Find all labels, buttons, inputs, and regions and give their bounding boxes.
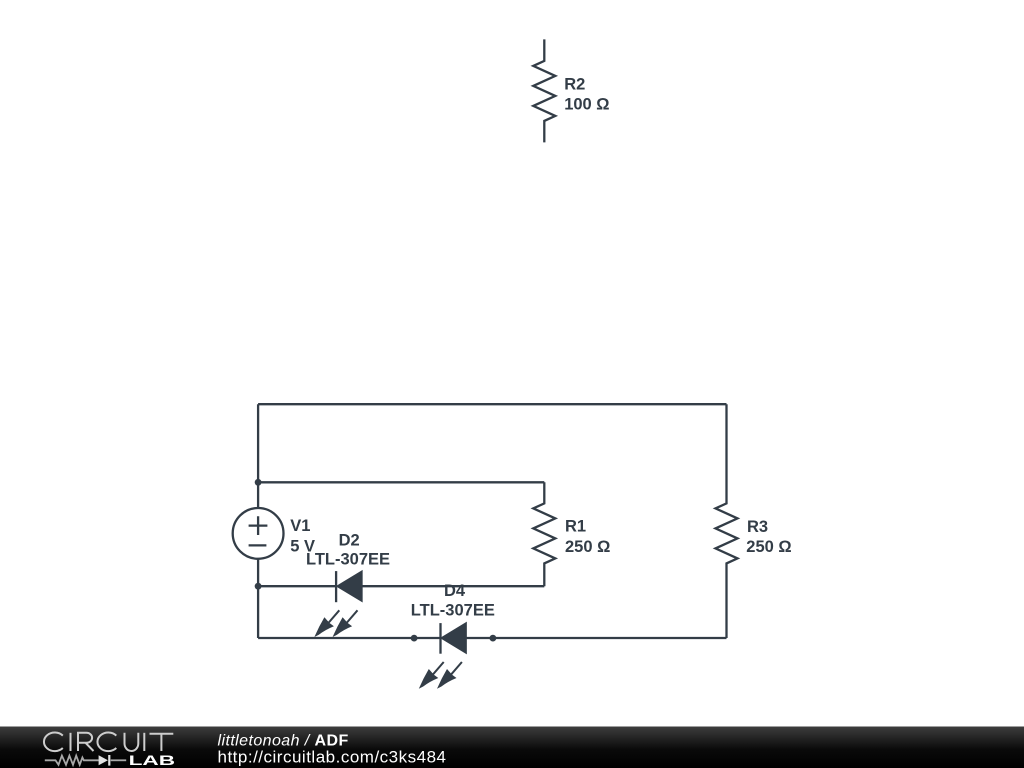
label R1 xyxy=(565,517,586,535)
svg-text:R1: R1 xyxy=(565,517,586,535)
value LTL-307EE of D2 xyxy=(306,551,390,569)
node A junction dot top xyxy=(255,479,262,486)
wire branch bottom left xyxy=(258,585,336,587)
value 250 Ohm of R3 xyxy=(746,538,791,556)
svg-text:LAB: LAB xyxy=(129,752,176,768)
label R2 xyxy=(564,75,585,93)
node B junction dot bottom xyxy=(255,583,262,590)
svg-text:http://circuitlab.com/c3ks484: http://circuitlab.com/c3ks484 xyxy=(218,748,447,767)
wire left upper xyxy=(257,404,259,508)
wire branch bottom right xyxy=(362,585,545,587)
wire top xyxy=(258,403,726,405)
wire branch top xyxy=(258,481,544,483)
LED D2 xyxy=(314,571,361,637)
footer bar xyxy=(0,727,1024,768)
footer url line xyxy=(218,748,447,767)
label D4 xyxy=(444,582,466,600)
label V1 xyxy=(290,517,310,535)
svg-text:D4: D4 xyxy=(444,582,466,600)
resistor R3 xyxy=(716,404,738,638)
wire bottom left xyxy=(258,637,440,639)
value 5 V xyxy=(290,537,315,555)
resistor R2 xyxy=(533,39,555,142)
value 250 Ohm of R1 xyxy=(565,538,610,556)
wire bottom right xyxy=(466,637,727,639)
svg-text:250 Ω: 250 Ω xyxy=(565,538,610,556)
CircuitLab logo CIRCUIT text xyxy=(44,732,173,751)
resistor R1 xyxy=(533,482,555,586)
svg-text:100 Ω: 100 Ω xyxy=(564,95,609,113)
node C junction dot bottom wire left xyxy=(411,635,418,642)
node D junction dot bottom wire right xyxy=(490,635,497,642)
LED D4 xyxy=(419,623,466,689)
svg-text:R2: R2 xyxy=(564,75,585,93)
svg-text:V1: V1 xyxy=(290,517,310,535)
value LTL-307EE of D4 xyxy=(411,602,495,620)
CircuitLab logo LAB text xyxy=(129,752,176,768)
svg-text:R3: R3 xyxy=(747,518,768,536)
voltage source V1 xyxy=(233,508,284,559)
svg-text:LTL-307EE: LTL-307EE xyxy=(306,551,390,569)
CircuitLab logo schematic symbols xyxy=(45,756,126,765)
svg-text:LTL-307EE: LTL-307EE xyxy=(411,602,495,620)
svg-text:250 Ω: 250 Ω xyxy=(746,538,791,556)
label D2 xyxy=(339,531,360,549)
wire left lower xyxy=(257,559,259,638)
svg-text:D2: D2 xyxy=(339,531,360,549)
value 100 Ohm xyxy=(564,95,609,113)
footer author line xyxy=(218,733,349,750)
label R3 xyxy=(747,518,768,536)
